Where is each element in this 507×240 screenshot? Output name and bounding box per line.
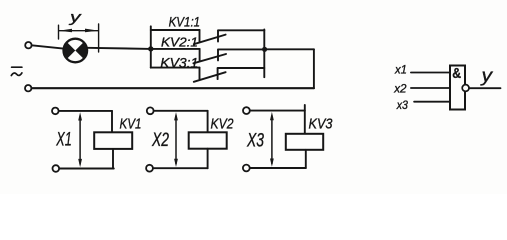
coil KV1 rectangle	[94, 132, 132, 149]
coil cell 1: wire coil to bottom	[112, 149, 114, 169]
wire bottom return	[32, 87, 314, 89]
signal X3 arrow	[270, 112, 274, 167]
coil cell 1: top wire	[59, 110, 112, 112]
svg-text:X1: X1	[56, 130, 72, 151]
wire KV1 branch right lead	[218, 29, 264, 31]
terminal top supply	[25, 42, 31, 48]
svg-text:KV2:1: KV2:1	[161, 34, 198, 49]
svg-text:y: y	[479, 66, 493, 86]
signal X2 arrow	[174, 112, 178, 167]
coil cell 3: wire down to coil KV3	[304, 105, 306, 134]
coil cell 3: terminal top	[243, 107, 250, 114]
svg-text:KV1: KV1	[120, 116, 142, 133]
coil cell 1: bottom wire	[59, 168, 113, 170]
svg-text:x3: x3	[396, 98, 408, 112]
lamp HL filled sectors	[64, 42, 76, 59]
wire KV1 branch left lead	[151, 29, 200, 31]
wire KV2 branch right lead	[218, 48, 264, 50]
contact KV3:1	[194, 68, 226, 82]
logic gate AND-NOT body	[450, 66, 465, 110]
coil cell 2: terminal top	[147, 107, 154, 114]
wire node B to right corner	[265, 48, 314, 50]
coil cell 2: terminal bottom	[146, 165, 153, 172]
coil cell 3: terminal bottom	[243, 165, 250, 172]
svg-text:KV2: KV2	[211, 116, 235, 133]
gate output wire	[469, 87, 500, 89]
node B junction dot	[262, 47, 267, 52]
signal y dimension right tick	[98, 24, 100, 52]
coil cell 2: wire coil to bottom	[207, 149, 209, 169]
gate input wire x3	[414, 101, 450, 103]
coil KV3 rectangle	[286, 134, 323, 150]
svg-text:KV3:1: KV3:1	[160, 55, 198, 70]
gate input wire x2	[411, 87, 450, 89]
lamp HL circle	[64, 39, 88, 63]
contact KV1:1	[194, 30, 226, 44]
svg-text:X2: X2	[151, 130, 169, 151]
wire right branch vertical	[263, 30, 265, 78]
coil cell 1: terminal top	[52, 108, 59, 115]
coil cell 2: wire down to coil KV2	[207, 111, 209, 133]
svg-text:X3: X3	[246, 130, 264, 151]
coil cell 3: top wire	[250, 110, 305, 112]
coil cell 1: terminal bottom	[53, 165, 60, 172]
signal X1 arrow	[78, 112, 82, 167]
wire supply to lamp	[32, 45, 64, 48]
coil cell 1: wire down to coil KV1	[111, 111, 113, 132]
AC supply symbol	[11, 67, 22, 75]
wire right corner down	[313, 49, 315, 88]
wire KV2 branch left lead	[151, 48, 200, 50]
wire KV3 branch right lead	[218, 67, 265, 69]
wire left branch vertical	[150, 26, 152, 67]
terminal bottom supply	[25, 85, 31, 91]
svg-text:x1: x1	[394, 63, 407, 77]
gate inversion bubble	[462, 85, 469, 92]
signal y dimension left tick	[58, 25, 60, 39]
coil cell 3: bottom wire	[250, 167, 306, 169]
coil KV2 rectangle	[189, 132, 227, 148]
svg-text:KV3: KV3	[309, 116, 334, 133]
svg-text:y: y	[69, 10, 82, 26]
node A junction dot	[148, 46, 153, 51]
svg-text:&: &	[452, 65, 461, 82]
coil cell 2: bottom wire	[154, 167, 208, 169]
wire KV3 branch left lead	[151, 67, 200, 69]
svg-text:x2: x2	[393, 82, 407, 96]
contact KV2:1	[193, 49, 226, 63]
gate input wire x1	[411, 72, 450, 74]
signal y dimension line with arrows	[59, 30, 98, 32]
svg-text:KV1:1: KV1:1	[169, 13, 201, 29]
coil cell 2: top wire	[154, 110, 208, 112]
wire lamp to node A	[87, 48, 151, 49]
coil cell 3: wire coil to bottom	[305, 150, 307, 168]
